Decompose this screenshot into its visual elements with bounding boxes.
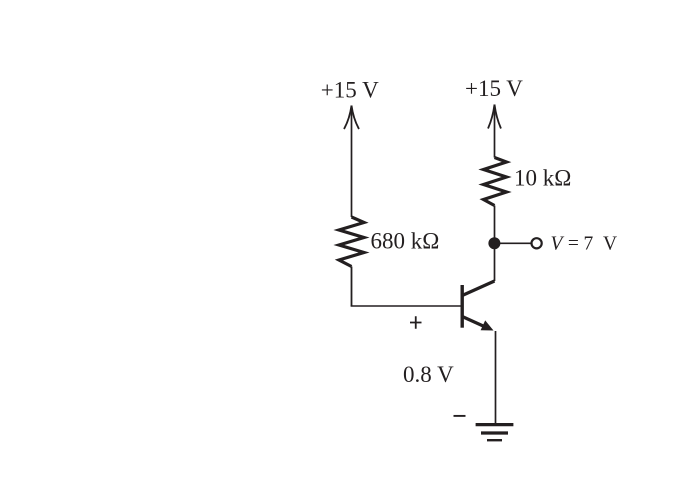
- svg-text:680 kΩ: 680 kΩ: [371, 229, 440, 254]
- svg-text:10 kΩ: 10 kΩ: [514, 166, 571, 191]
- svg-text:V: V: [551, 234, 565, 255]
- svg-text:+15 V: +15 V: [321, 78, 379, 103]
- svg-text:V: V: [603, 234, 617, 255]
- svg-text:7: 7: [584, 234, 594, 255]
- svg-text:0.8 V: 0.8 V: [403, 362, 454, 387]
- svg-text:+15 V: +15 V: [465, 76, 523, 101]
- svg-text:=: =: [568, 234, 579, 255]
